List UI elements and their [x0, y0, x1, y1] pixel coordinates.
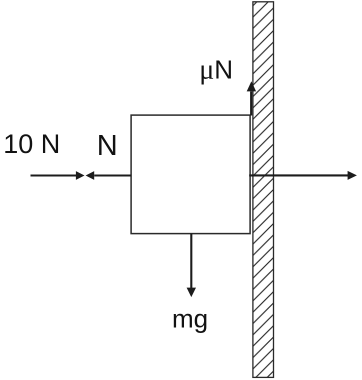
svg-text:mg: mg [172, 304, 208, 334]
friction arrow muN (points up) [247, 81, 256, 115]
svg-text:N: N [97, 130, 118, 162]
applied force arrow 10 N (points right) [31, 171, 85, 180]
normal force arrow N (points left) [86, 171, 132, 180]
svg-text:μN: μN [199, 55, 233, 86]
wall (hatched) [253, 2, 274, 378]
svg-text:10 N: 10 N [3, 129, 60, 159]
block [131, 115, 250, 234]
reaction arrow through wall (points right) [249, 171, 357, 180]
weight arrow mg (points down) [187, 234, 196, 297]
